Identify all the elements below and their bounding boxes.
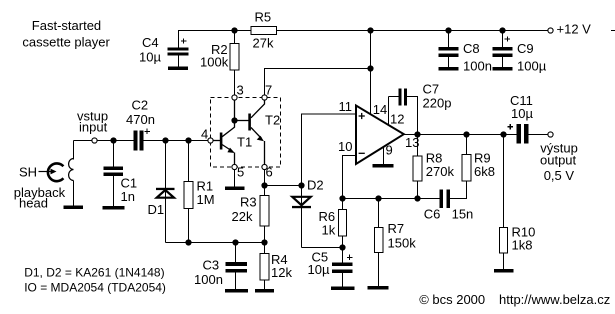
wire R1 branch lower xyxy=(188,209,190,243)
svg-text:270k: 270k xyxy=(426,164,455,179)
capacitor C9 plate top xyxy=(493,47,513,51)
svg-text:5: 5 xyxy=(237,165,244,180)
svg-text:1k: 1k xyxy=(322,223,336,238)
op-amp U1 MDA2054 xyxy=(356,106,404,165)
ground under pin5 xyxy=(225,187,245,191)
wire C11 to output terminal xyxy=(529,134,549,136)
wire R7 top xyxy=(378,199,380,228)
wire R9 top xyxy=(466,135,468,155)
svg-text:12: 12 xyxy=(390,111,404,126)
svg-text:7: 7 xyxy=(265,82,272,97)
svg-text:C6: C6 xyxy=(424,207,441,222)
capacitor C3 plate bottom xyxy=(226,269,248,273)
capacitor C6 plate right xyxy=(447,190,451,209)
wire bottom left rail xyxy=(166,242,265,244)
svg-text:10: 10 xyxy=(338,139,352,154)
wire R6 top xyxy=(342,199,344,210)
wire C3 branch upper xyxy=(235,243,237,263)
plus sign C5 xyxy=(347,255,352,260)
svg-text:T2: T2 xyxy=(265,113,280,128)
transistor T2 xyxy=(235,100,265,165)
diode D1 xyxy=(156,188,175,198)
svg-text:100µ: 100µ xyxy=(517,59,547,74)
wire R7 bottom xyxy=(378,253,380,287)
capacitor C1 plate top xyxy=(104,167,124,171)
wire C8 branch upper xyxy=(448,31,450,48)
svg-text:10µ: 10µ xyxy=(139,50,161,65)
svg-text:22k: 22k xyxy=(232,209,253,224)
wire D1 branch xyxy=(165,141,167,243)
svg-text:10µ: 10µ xyxy=(308,262,330,277)
capacitor C7 plate left xyxy=(399,89,402,106)
wire R1 branch upper xyxy=(188,141,190,182)
svg-text:C4: C4 xyxy=(142,35,159,50)
plus sign C9 xyxy=(505,36,510,41)
svg-text:14: 14 xyxy=(373,102,387,117)
ground under C5 xyxy=(331,287,355,291)
ground under R4 xyxy=(255,289,274,293)
wire C1 branch lower xyxy=(113,176,115,207)
svg-text:1k8: 1k8 xyxy=(512,238,533,253)
wire R3 bottom xyxy=(264,226,266,243)
wire pin6 down xyxy=(264,170,266,196)
capacitor C4 plate bottom xyxy=(168,53,189,56)
wire C8 branch lower xyxy=(448,57,450,68)
wire head coil bottom xyxy=(73,181,75,206)
svg-text:6k8: 6k8 xyxy=(474,164,495,179)
ground under C4 xyxy=(168,67,188,71)
vstup input terminal xyxy=(92,138,97,143)
svg-text:150k: 150k xyxy=(388,236,417,251)
head coil xyxy=(69,159,74,181)
plus sign C2 xyxy=(144,129,149,134)
wire output rail xyxy=(404,134,517,136)
wire C1 branch upper xyxy=(113,141,115,168)
ground under C3 xyxy=(225,289,248,293)
+12V terminal xyxy=(548,28,553,33)
svg-text:input: input xyxy=(79,120,108,135)
wire R4 branch lower xyxy=(264,280,266,289)
node junction dots xyxy=(110,27,506,250)
wire head to input terminal xyxy=(74,140,93,142)
wire pin5 to ground xyxy=(234,170,236,187)
capacitor C2 plate left xyxy=(134,131,138,151)
wire C5 upper xyxy=(342,248,344,263)
ground under C8 xyxy=(439,67,459,71)
svg-text:C9: C9 xyxy=(517,41,534,56)
wire R10 bottom xyxy=(503,253,505,269)
wire C5 lower xyxy=(342,273,344,287)
diode D2 xyxy=(292,197,311,208)
svg-text:3: 3 xyxy=(237,82,244,97)
wire feedback rail xyxy=(343,198,440,200)
wire R10 riser xyxy=(503,135,505,228)
svg-text:C2: C2 xyxy=(132,98,149,113)
wire C4 branch lower xyxy=(178,55,180,67)
wire pin11 link xyxy=(302,114,356,186)
svg-text:100n: 100n xyxy=(194,272,223,287)
capacitor C9 plate bottom xyxy=(493,54,513,58)
svg-text:12k: 12k xyxy=(271,265,292,280)
wire +12V top rail xyxy=(178,30,548,32)
plus sign C4 xyxy=(181,38,186,43)
svg-text:head: head xyxy=(19,196,48,211)
resistor R10 1k8 xyxy=(500,228,508,254)
wire C9 branch upper xyxy=(502,31,504,48)
wire pin12 riser xyxy=(388,97,390,126)
svg-text:13: 13 xyxy=(405,135,419,150)
svg-text:C8: C8 xyxy=(463,41,480,56)
svg-text:470n: 470n xyxy=(126,112,155,127)
ground under op-amp pin9 xyxy=(373,164,394,168)
ground under R10 xyxy=(494,269,514,273)
svg-text:output: output xyxy=(540,152,577,167)
svg-text:27k: 27k xyxy=(253,36,274,51)
capacitor C5 plate bottom xyxy=(332,270,353,274)
resistor R8 270k xyxy=(413,156,422,181)
capacitor C8 plate bottom xyxy=(439,54,459,58)
resistor R6 1k xyxy=(339,210,347,237)
svg-text:1n: 1n xyxy=(121,189,135,204)
svg-text:C7: C7 xyxy=(423,82,440,97)
svg-text:4: 4 xyxy=(201,127,208,142)
resistor R1 1M xyxy=(184,182,193,209)
ground under C1 xyxy=(103,206,125,210)
wire R6 bottom xyxy=(342,236,344,248)
capacitor C1 plate bottom xyxy=(104,173,124,177)
svg-text:11: 11 xyxy=(339,99,353,114)
vystup output terminal xyxy=(548,132,553,137)
wire pin10 link xyxy=(343,156,356,199)
svg-text:D1: D1 xyxy=(148,202,165,217)
wire C4 branch upper xyxy=(178,31,180,48)
svg-text:15n: 15n xyxy=(452,207,474,222)
capacitor C6 plate left xyxy=(440,190,444,209)
svg-text:100n: 100n xyxy=(463,59,492,74)
svg-text:SH: SH xyxy=(19,165,37,180)
svg-text:cassette player: cassette player xyxy=(22,35,110,50)
ground under C9 xyxy=(493,67,513,71)
wire D2 to C5 node xyxy=(302,247,343,249)
svg-text:© bcs 2000: © bcs 2000 xyxy=(419,292,485,307)
transistor T1 xyxy=(213,100,235,165)
ground under R7 xyxy=(368,286,389,290)
resistor R5 27k xyxy=(251,27,277,35)
wire R2 branch upper xyxy=(234,31,236,44)
wire right edge stub xyxy=(611,30,615,32)
resistor R7 150k xyxy=(375,228,384,253)
wire pin7 top link xyxy=(265,69,371,96)
resistor R2 100k xyxy=(230,44,239,71)
svg-text:1M: 1M xyxy=(197,192,215,207)
wire C6 right to R9 xyxy=(450,181,467,199)
svg-text:D1, D2 = KA261 (1N4148): D1, D2 = KA261 (1N4148) xyxy=(24,266,164,280)
svg-text:6: 6 xyxy=(266,165,273,180)
svg-text:http://www.belza.cz: http://www.belza.cz xyxy=(499,292,610,307)
capacitor C5 plate top xyxy=(332,263,353,267)
wire C9 branch lower xyxy=(502,57,504,68)
resistor R4 12k xyxy=(260,254,269,281)
svg-text:C3: C3 xyxy=(203,258,220,273)
wire R4 branch upper xyxy=(264,243,266,254)
playback head symbol xyxy=(39,159,74,182)
wire node B horizontal pin6 to D2 xyxy=(265,185,302,187)
wire R8 bottom xyxy=(417,181,419,198)
capacitor C11 plate right xyxy=(524,124,529,144)
wire C7 left link xyxy=(389,96,399,98)
wire C3 branch lower xyxy=(235,273,237,290)
wire R2 to pin3 xyxy=(234,70,236,95)
wire R8 top xyxy=(417,135,419,157)
svg-text:D2: D2 xyxy=(307,178,324,193)
svg-text:+12 V: +12 V xyxy=(557,22,592,37)
resistor R3 22k xyxy=(260,196,269,227)
svg-text:220p: 220p xyxy=(423,96,452,111)
wire pin9 stub xyxy=(383,147,385,164)
capacitor C11 plate left xyxy=(517,124,522,144)
svg-text:10µ: 10µ xyxy=(511,106,533,121)
capacitor C8 plate top xyxy=(439,47,459,51)
resistor R9 6k8 xyxy=(462,155,471,182)
svg-text:R5: R5 xyxy=(255,10,272,25)
svg-text:R3: R3 xyxy=(240,195,257,210)
pin 3 xyxy=(232,95,237,100)
svg-text:100k: 100k xyxy=(200,54,229,69)
pin 7 xyxy=(262,95,267,100)
capacitor C3 plate top xyxy=(226,262,248,266)
capacitor C2 plate right xyxy=(140,131,144,151)
svg-text:Fast-started: Fast-started xyxy=(32,18,101,33)
capacitor C7 plate right xyxy=(404,89,407,106)
ground under head xyxy=(64,206,84,210)
transistor block dashed box xyxy=(211,98,281,168)
svg-text:IO = MDA2054 (TDA2054): IO = MDA2054 (TDA2054) xyxy=(24,281,166,295)
wire C7 right link xyxy=(407,97,418,135)
svg-text:T1: T1 xyxy=(237,134,252,149)
wire input terminal to C2 xyxy=(97,140,134,142)
plus sign C11 xyxy=(508,124,513,129)
wire C2 to pin4 xyxy=(144,140,209,142)
wire pin14 riser xyxy=(370,31,372,116)
wire head coil top xyxy=(73,141,75,160)
pin 5 xyxy=(232,164,237,169)
svg-text:0,5 V: 0,5 V xyxy=(544,168,575,183)
pin 6 xyxy=(262,164,267,169)
pin 4 xyxy=(208,138,213,143)
terminal and pin open circles xyxy=(92,28,553,170)
svg-text:9: 9 xyxy=(386,143,393,158)
wire D2 branch xyxy=(301,186,303,248)
svg-text:R7: R7 xyxy=(388,221,405,236)
capacitor C4 plate top xyxy=(168,48,189,51)
